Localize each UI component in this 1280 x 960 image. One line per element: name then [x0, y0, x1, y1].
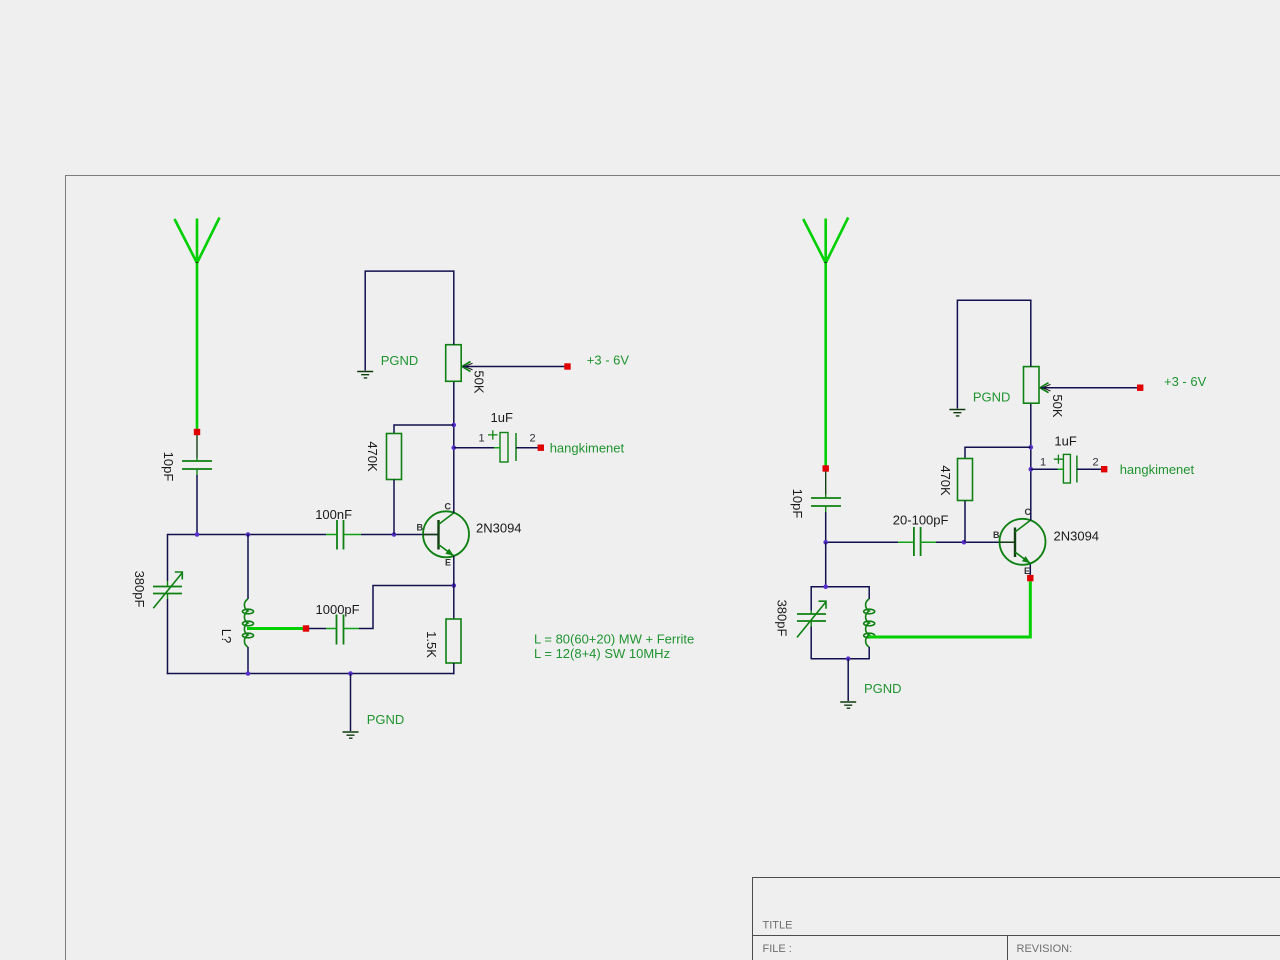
capacitor C1 10pF [182, 458, 212, 476]
svg-text:20-100pF: 20-100pF [893, 513, 949, 528]
wire base bus right circuit [826, 541, 898, 543]
node junction collector/R3wire [1029, 445, 1034, 450]
wire antenna node to tank [825, 542, 827, 587]
potentiometer VR1 50K [446, 345, 473, 382]
svg-text:2N3094: 2N3094 [1054, 529, 1100, 544]
wire tank left vertical bottom [810, 627, 812, 660]
wire R3 bottom [964, 501, 966, 543]
inductor L1 [243, 599, 254, 647]
wire antenna mast [196, 263, 199, 430]
sheet border [66, 176, 1280, 960]
wire C9 left lead [1031, 468, 1064, 470]
transistor Q1 2N3094 [423, 511, 469, 557]
wire C3 to emitter node [359, 586, 454, 629]
wire emitter down [453, 556, 455, 619]
svg-text:380pF: 380pF [132, 571, 147, 608]
node junction bottom/L1 [246, 671, 251, 676]
svg-text:2N3094: 2N3094 [476, 521, 522, 536]
svg-text:E: E [1024, 566, 1030, 576]
wire base bus right of C4 [361, 534, 439, 536]
wire L1 top lead [247, 534, 249, 599]
wire L2 tap green [869, 581, 1031, 637]
wire base bus y534.5 [168, 534, 327, 536]
node junction emitter [452, 583, 457, 588]
wire L1 tap green [247, 627, 303, 630]
transistor Q2 2N3094 [1000, 519, 1046, 565]
node junction tank bottom/PGND [846, 656, 851, 661]
capacitor C6 10pF [811, 495, 841, 513]
node junction base/L1 [246, 532, 251, 537]
node junction base/R3 [962, 540, 967, 545]
svg-text:L = 80(60+20) MW + Ferrite: L = 80(60+20) MW + Ferrite [534, 632, 694, 647]
node junction collector/C5 [452, 445, 457, 450]
wire pot top [453, 270, 455, 344]
wire tank top bus [811, 586, 869, 588]
capacitor C7 20-100pF [898, 527, 936, 556]
node hangkimenet endpoint right [1101, 466, 1107, 472]
wire C1 top lead [196, 435, 198, 458]
resistor R2 1.5K [446, 619, 461, 663]
svg-text:hangkimenet: hangkimenet [1120, 462, 1195, 477]
node tap to C3 [303, 625, 309, 631]
capacitor C2 380pF variable [153, 572, 182, 608]
node junction collector/C9 [1029, 467, 1034, 472]
svg-text:B: B [417, 523, 424, 533]
svg-text:B: B [993, 530, 1000, 540]
svg-text:470K: 470K [365, 441, 380, 472]
wire collector up right [1030, 403, 1032, 520]
svg-text:PGND: PGND [381, 353, 419, 368]
svg-text:1: 1 [479, 433, 485, 445]
wire tank left vertical [810, 586, 812, 611]
antenna ANT1 [175, 218, 220, 264]
wire L2 bottom lead [868, 647, 870, 659]
potentiometer VR2 50K [1024, 367, 1051, 404]
wire R1 bottom [393, 480, 395, 535]
wire L1 bottom lead [247, 647, 249, 674]
node junction base/R1 [392, 532, 397, 537]
node antenna to C1 [194, 429, 200, 435]
svg-text:1uF: 1uF [491, 410, 513, 425]
wire C3 left lead [309, 628, 326, 630]
resistor R3 470K [958, 459, 973, 501]
ground PGND bottom right [840, 702, 856, 708]
svg-text:1: 1 [1040, 457, 1046, 469]
ground PGND top right [949, 410, 965, 416]
node junction tank top [823, 584, 828, 589]
node antenna to C6 [823, 465, 829, 471]
ground PGND bottom left [343, 732, 359, 738]
capacitor C5 1uF polarized [488, 430, 522, 462]
svg-text:REVISION:: REVISION: [1017, 943, 1073, 955]
node antenna vertex right [824, 262, 827, 265]
wire top bus right [957, 300, 1030, 408]
inductor L2 [864, 599, 875, 647]
svg-text:PGND: PGND [973, 390, 1011, 405]
capacitor C8 380pF variable [797, 601, 826, 637]
wire R3 top [965, 447, 1031, 458]
svg-text:50K: 50K [1050, 394, 1065, 417]
wire collector up [453, 381, 455, 513]
wire C6 bottom [825, 512, 827, 542]
wire C5 left lead [454, 447, 500, 449]
wire wiper to supply right [1041, 387, 1138, 389]
wire bottom bus [167, 673, 455, 675]
node junction collector/R1wire [452, 423, 457, 428]
node antenna vertex [196, 262, 199, 265]
wire tank bottom bus [811, 658, 869, 660]
svg-text:L = 12(8+4) SW 10MHz: L = 12(8+4) SW 10MHz [534, 646, 670, 661]
wire pot top right [1030, 300, 1032, 367]
svg-text:C: C [445, 502, 452, 512]
svg-text:2: 2 [1093, 457, 1099, 469]
svg-text:+3 - 6V: +3 - 6V [587, 353, 630, 368]
wire top bus [365, 271, 454, 370]
svg-text:1000pF: 1000pF [316, 602, 360, 617]
wire tank left vertical top [167, 534, 169, 581]
svg-text:50K: 50K [472, 370, 487, 393]
capacitor C9 1uF polarized [1054, 454, 1083, 483]
svg-text:L?: L? [219, 629, 234, 643]
svg-text:TITLE: TITLE [763, 920, 793, 932]
node supply endpoint right [1137, 385, 1143, 391]
wire R1 top [394, 425, 454, 434]
svg-text:+3 - 6V: +3 - 6V [1164, 374, 1207, 389]
wire L2 top lead [868, 586, 870, 599]
resistor R1 470K [387, 434, 402, 480]
wire wiper to supply [463, 366, 566, 368]
svg-text:PGND: PGND [367, 712, 405, 727]
title block [753, 878, 1280, 960]
wire PGND drop [350, 674, 352, 732]
node junction base/C1 [195, 532, 200, 537]
svg-text:10pF: 10pF [790, 489, 805, 519]
wire PGND drop right [847, 659, 849, 701]
svg-text:100nF: 100nF [315, 507, 352, 522]
svg-text:FILE :: FILE : [763, 943, 792, 955]
ground PGND top left [357, 372, 373, 378]
capacitor C4 100nF [326, 520, 361, 550]
svg-text:2: 2 [530, 433, 536, 445]
svg-text:E: E [445, 558, 451, 568]
svg-text:hangkimenet: hangkimenet [550, 441, 625, 456]
wire R2 bottom [453, 663, 455, 674]
wire tank left vertical bottom [167, 599, 169, 674]
antenna ANT2 [803, 218, 848, 264]
svg-text:10pF: 10pF [161, 452, 176, 482]
wire C5 right lead [516, 447, 539, 449]
node junction bottom/PGND [348, 671, 353, 676]
wire emitter to node [1029, 563, 1031, 575]
svg-text:PGND: PGND [864, 681, 902, 696]
node junction base/antenna [823, 540, 828, 545]
svg-text:1uF: 1uF [1054, 434, 1076, 449]
capacitor C3 1000pF [326, 615, 359, 645]
wire C6 top lead [825, 472, 827, 495]
wire base bus to Q2 [936, 541, 1016, 543]
node hangkimenet endpoint [538, 445, 544, 451]
wire antenna mast right [824, 263, 827, 466]
svg-text:470K: 470K [938, 465, 953, 496]
node tap to emitter [1027, 575, 1033, 581]
svg-text:1.5K: 1.5K [424, 631, 439, 658]
node supply endpoint [564, 363, 570, 369]
svg-text:380pF: 380pF [775, 600, 790, 637]
wire C1 bottom to base bus [196, 475, 198, 535]
wire C9 right lead [1077, 468, 1102, 470]
